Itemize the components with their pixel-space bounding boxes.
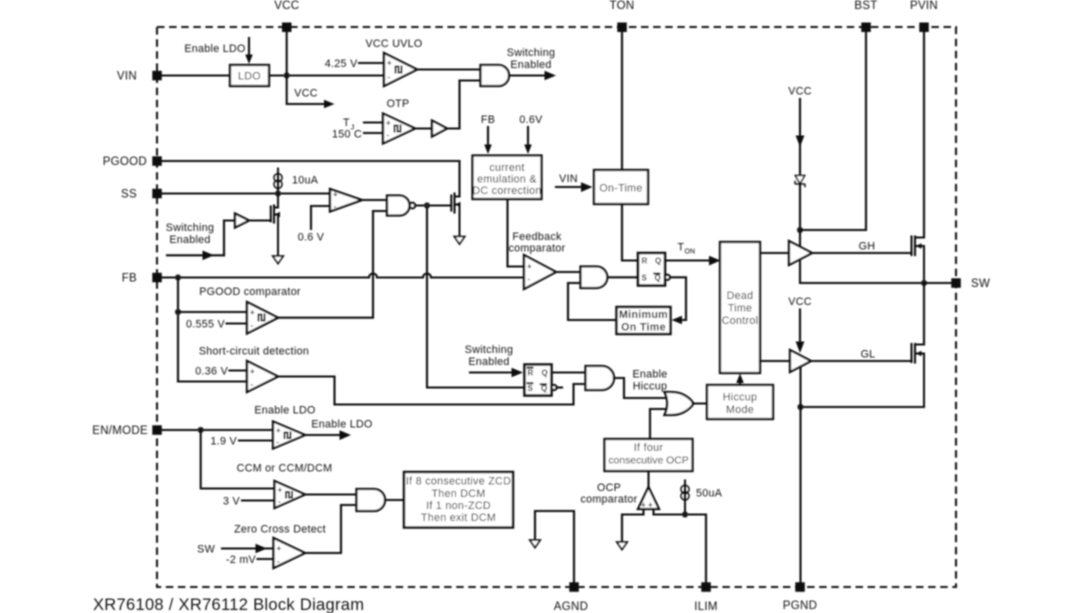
svg-text:FB: FB xyxy=(122,273,137,285)
wire AND output arrow Switching Enabled xyxy=(509,71,556,81)
svg-text:PGOOD: PGOOD xyxy=(103,156,147,168)
block Hiccup Mode xyxy=(707,385,773,419)
svg-text:-2 mV: -2 mV xyxy=(226,554,257,566)
svg-text:Q: Q xyxy=(655,273,661,282)
buffer SS discharge driver xyxy=(235,214,249,228)
wire latch Qbar to minimum on time box xyxy=(670,277,686,324)
gate AND switching-enable xyxy=(481,65,510,86)
svg-text:Dead: Dead xyxy=(727,290,754,302)
wire VIN arrow into On-Time xyxy=(556,182,593,192)
svg-text:3 V: 3 V xyxy=(223,496,241,508)
svg-text:BST: BST xyxy=(854,0,877,12)
wire feedback comparator to min-on AND xyxy=(556,271,581,273)
wire TJ to OTP xyxy=(364,121,383,123)
svg-text:VIN: VIN xyxy=(559,173,578,185)
svg-text:Enable LDO: Enable LDO xyxy=(311,419,372,431)
block Dead Time Control xyxy=(720,242,760,373)
transistor SS discharge NMOS xyxy=(271,194,280,256)
svg-text:150 C: 150 C xyxy=(332,129,362,141)
wire VIN to LDO xyxy=(162,74,231,76)
svg-text:AGND: AGND xyxy=(554,601,588,613)
svg-text:-: - xyxy=(278,497,281,506)
wire Switching Enabled arrow to latch R input xyxy=(470,368,523,378)
svg-text:-: - xyxy=(387,131,390,140)
svg-text:4.25 V: 4.25 V xyxy=(325,58,358,70)
node SW junction xyxy=(921,280,927,286)
wire FB to short-circuit comparator minus input xyxy=(178,380,247,382)
wire FB to PGOOD comparator plus input xyxy=(178,311,247,313)
svg-text:Enable LDO: Enable LDO xyxy=(254,405,315,417)
svg-text:OCP: OCP xyxy=(597,482,621,494)
svg-text:Then exit DCM: Then exit DCM xyxy=(421,512,496,524)
wire VCC arrow into GL driver xyxy=(796,310,805,354)
transistor high-side NMOS xyxy=(912,237,925,284)
svg-text:Switching: Switching xyxy=(465,344,513,356)
svg-text:VIN: VIN xyxy=(117,71,137,83)
wire FB arrow into current emulation box xyxy=(484,127,492,154)
svg-text:1.9 V: 1.9 V xyxy=(211,436,238,448)
label Enable Hiccup xyxy=(632,369,667,393)
wire PVIN pin down to high-side drain xyxy=(923,32,925,238)
label Feedback comparator xyxy=(508,231,565,255)
svg-text:VCC: VCC xyxy=(788,296,811,308)
gate NAND soft-start xyxy=(387,196,415,216)
gate AND DCM detect xyxy=(357,489,386,511)
svg-text:ILIM: ILIM xyxy=(694,601,718,613)
wire buffer to AND lower input xyxy=(447,81,481,129)
svg-text:SW: SW xyxy=(971,278,990,290)
node FB to PGOOD comparator junction xyxy=(175,309,181,315)
svg-text:-: - xyxy=(251,380,254,389)
wire 0.6V to SS comparator xyxy=(311,206,330,229)
svg-text:-: - xyxy=(277,438,280,447)
pin PVIN (top) xyxy=(910,0,938,32)
svg-text:comparator: comparator xyxy=(580,494,637,506)
latch U2 RS (hiccup) xyxy=(525,365,563,396)
wire FB pin to feedback comparator (with hops) xyxy=(162,274,525,278)
svg-text:+: + xyxy=(386,119,391,128)
pin TON (top) xyxy=(610,0,635,32)
svg-text:S: S xyxy=(528,384,534,393)
node ILIM current source junction xyxy=(682,511,688,517)
svg-text:SS: SS xyxy=(121,189,137,201)
block If four consecutive OCP xyxy=(605,439,693,471)
wire PGOOD comparator output up to NAND lower input xyxy=(278,211,387,318)
svg-text:On Time: On Time xyxy=(621,322,666,334)
svg-text:CCM or CCM/DCM: CCM or CCM/DCM xyxy=(237,463,333,475)
svg-text:Mode: Mode xyxy=(726,404,754,416)
svg-text:+: + xyxy=(527,262,532,271)
diode bootstrap (zener) xyxy=(795,176,805,231)
wire OTP comparator to buffer xyxy=(415,127,432,129)
regulator LDO xyxy=(230,65,269,86)
svg-text:Q: Q xyxy=(542,369,548,378)
wire NAND output to PGOOD MOSFET gate xyxy=(415,204,451,206)
transistor PGOOD pulldown NMOS xyxy=(451,194,460,237)
svg-text:Q: Q xyxy=(541,384,547,393)
svg-text:If 8 consecutive ZCD: If 8 consecutive ZCD xyxy=(406,476,511,488)
svg-text:consecutive OCP: consecutive OCP xyxy=(608,456,688,467)
svg-text:DC correction: DC correction xyxy=(472,185,541,197)
pin FB (left) xyxy=(122,273,162,285)
svg-text:On-Time: On-Time xyxy=(599,183,642,195)
node PGND junction xyxy=(797,404,803,410)
label TON signal xyxy=(678,242,696,256)
wire Enable LDO arrow into LDO xyxy=(245,38,253,64)
pin BST (top) xyxy=(854,0,877,32)
svg-text:Hiccup: Hiccup xyxy=(633,381,667,393)
block DCM decision xyxy=(404,472,513,528)
comparator OCP (upward) xyxy=(638,487,659,510)
wire VCC pin drop xyxy=(287,32,327,104)
node FB branch junction xyxy=(175,274,181,280)
svg-text:GL: GL xyxy=(861,349,876,361)
buffer GH driver xyxy=(789,241,812,265)
wire OCP counter to OR lower input xyxy=(650,409,666,439)
pin ILIM (bottom) xyxy=(694,582,718,613)
svg-text:EN/MODE: EN/MODE xyxy=(92,425,148,437)
node EN/MODE branch junction xyxy=(198,427,204,433)
pin EN/MODE (left) xyxy=(92,425,162,437)
wire -2mV to ZCD comparator xyxy=(258,558,274,560)
wire SW node to SW pin xyxy=(924,282,952,284)
svg-text:0.36 V: 0.36 V xyxy=(195,366,228,378)
svg-text:+: + xyxy=(333,190,338,199)
svg-text:-: - xyxy=(528,275,531,284)
buffer GL driver xyxy=(790,350,811,372)
svg-text:+: + xyxy=(276,426,281,435)
wire latch Q output TON arrow to dead time control xyxy=(665,256,721,266)
current source 50uA xyxy=(681,481,723,515)
label TJ xyxy=(343,117,355,132)
svg-text:-: - xyxy=(277,557,280,566)
svg-text:PVIN: PVIN xyxy=(910,0,938,12)
svg-text:Switching: Switching xyxy=(507,47,555,59)
pin VCC (top) xyxy=(274,0,299,32)
wire Hiccup Mode arrow up to dead time control xyxy=(736,374,744,386)
svg-text:Enable LDO: Enable LDO xyxy=(184,43,245,55)
wire AND to latch S input xyxy=(608,276,639,278)
comparator soft-start xyxy=(330,189,362,212)
wire OCP comparator to counter box xyxy=(647,471,649,487)
svg-text:VCC UVLO: VCC UVLO xyxy=(365,38,422,50)
svg-text:FB: FB xyxy=(481,114,495,126)
wire dead time control to GL driver xyxy=(760,360,790,362)
wire AGND pin collector xyxy=(535,511,574,582)
wire SS pin to soft-start comparator xyxy=(162,192,331,194)
svg-text:R: R xyxy=(528,369,534,378)
comparator CCM mode xyxy=(275,481,306,508)
svg-text:Q: Q xyxy=(655,257,661,266)
wire minimum on time loop to AND lower input xyxy=(568,283,617,320)
wire low-side source to PGND node xyxy=(801,406,925,408)
svg-text:0.555 V: 0.555 V xyxy=(186,319,226,331)
svg-text:ON: ON xyxy=(685,249,696,256)
svg-text:Control: Control xyxy=(722,315,759,327)
svg-text:-: - xyxy=(251,321,254,330)
wire SW node down to low-side drain xyxy=(923,283,925,345)
node VCC junction on LDO output xyxy=(284,72,290,78)
node bootstrap junction xyxy=(797,227,803,233)
pin PGOOD (left) xyxy=(103,156,162,168)
wire CCM comparator to DCM AND xyxy=(305,493,357,495)
wire PGND node to PGND pin xyxy=(799,407,801,582)
svg-text:XR76108 / XR76112 Block Diagra: XR76108 / XR76112 Block Diagram xyxy=(93,596,364,613)
wire 0.36V to short-circuit comparator xyxy=(230,369,248,371)
wire 1.9V to comparator xyxy=(239,439,273,441)
wire Switching Enabled arrow to buffer xyxy=(167,221,235,261)
svg-text:TON: TON xyxy=(610,0,635,12)
svg-text:VCC: VCC xyxy=(294,88,317,100)
svg-text:+: + xyxy=(387,59,392,68)
wire EN/MODE branch down to CCM comparator xyxy=(201,430,275,489)
buffer OTP output xyxy=(432,121,447,137)
wire 0.555V to PGOOD comparator xyxy=(227,322,248,324)
svg-text:+: + xyxy=(278,486,283,495)
svg-text:R: R xyxy=(642,257,648,266)
wire dead time control to GH driver xyxy=(760,252,789,254)
wire 0.6V arrow into current emulation box xyxy=(524,127,532,154)
wire short-circuit output to hiccup AND xyxy=(278,377,586,405)
comparator VCC UVLO xyxy=(384,53,417,86)
comparator OTP xyxy=(383,114,415,144)
transistor low-side NMOS xyxy=(912,344,925,407)
pin SW (right) xyxy=(951,278,990,290)
svg-text:LDO: LDO xyxy=(238,71,261,83)
wire UVLO output to AND xyxy=(417,68,481,70)
wire junction to BST pin xyxy=(800,32,866,230)
wire 150C to OTP xyxy=(364,132,383,134)
wire 3V to CCM comparator xyxy=(242,499,275,501)
svg-text:current: current xyxy=(489,162,524,174)
wire GL driver return to PGND node xyxy=(799,367,801,408)
svg-text:PGOOD comparator: PGOOD comparator xyxy=(199,286,301,298)
wire GH driver return to SW node xyxy=(800,260,924,283)
wire On-Time to latch R input xyxy=(622,204,638,261)
label OCP comparator xyxy=(580,482,637,506)
gate AND enable-hiccup xyxy=(586,366,615,390)
svg-text:-: - xyxy=(334,202,337,211)
svg-text:If 1 non-ZCD: If 1 non-ZCD xyxy=(426,500,491,512)
node NAND output junction xyxy=(424,202,430,208)
wire EN/MODE pin to Enable LDO comparator xyxy=(162,429,274,431)
wire FB down-branch xyxy=(177,278,179,382)
wire TON pin into On-Time xyxy=(621,32,623,170)
svg-text:Enabled: Enabled xyxy=(169,234,210,246)
svg-text:+: + xyxy=(250,367,255,376)
svg-text:T: T xyxy=(678,242,685,254)
svg-text:Minimum: Minimum xyxy=(619,309,668,321)
svg-text:OTP: OTP xyxy=(387,98,410,110)
label Switching Enabled (top) xyxy=(507,47,555,71)
wire SS comparator to NAND xyxy=(362,199,387,201)
wire OCP left input to ground xyxy=(622,509,644,542)
ground below SS MOSFET xyxy=(273,256,283,264)
ground OCP reference xyxy=(617,542,627,550)
svg-text:Enabled: Enabled xyxy=(468,356,509,368)
svg-text:+: + xyxy=(648,501,653,510)
wire OCP right input to ILIM pin xyxy=(654,509,707,582)
svg-text:10uA: 10uA xyxy=(292,175,319,187)
wire junction down to GH driver xyxy=(799,230,801,246)
wire VCC arrow down to diode xyxy=(796,99,805,175)
wire Enable LDO output arrow xyxy=(305,430,351,440)
gate OR hiccup xyxy=(665,392,694,415)
block Minimum On Time xyxy=(617,307,671,334)
label Switching Enabled (SS) xyxy=(166,222,214,246)
pin AGND (bottom) xyxy=(554,582,588,613)
node SS junction xyxy=(275,190,281,196)
svg-text:SW: SW xyxy=(197,544,215,556)
wire GH driver to high-side gate xyxy=(812,252,912,254)
comparator short-circuit xyxy=(247,361,278,392)
svg-text:-: - xyxy=(388,73,391,82)
block On-Time xyxy=(594,170,648,204)
svg-text:+: + xyxy=(250,308,255,317)
svg-text:emulation &: emulation & xyxy=(477,174,537,186)
wire SW arrow to ZCD comparator xyxy=(222,544,274,554)
ground below PGOOD MOSFET xyxy=(454,237,464,245)
comparator PGOOD xyxy=(247,302,278,334)
latch U1 RS (PWM) xyxy=(638,253,670,286)
current source 10uA xyxy=(274,169,319,194)
svg-text:VCC: VCC xyxy=(788,86,811,98)
wire GL driver to low-side gate xyxy=(811,360,912,362)
wire AND to ZCD box xyxy=(385,499,404,501)
wire PGOOD pin to pulldown MOSFET drain xyxy=(162,161,460,197)
block current emulation and DC correction xyxy=(472,156,541,200)
svg-text:Then DCM: Then DCM xyxy=(431,488,485,500)
pin PGND (bottom) xyxy=(783,582,817,612)
label VCC branch arrow xyxy=(294,88,334,109)
wire 4.25V to UVLO xyxy=(359,62,384,64)
svg-text:S: S xyxy=(642,273,648,282)
pin SS (left) xyxy=(121,189,162,201)
svg-text:Short-circuit detection: Short-circuit detection xyxy=(199,346,309,358)
wire NAND junction down to hiccup latch S input xyxy=(427,208,524,388)
svg-text:Time: Time xyxy=(728,303,753,315)
label Switching Enabled (hiccup latch) xyxy=(465,344,513,368)
comparator feedback xyxy=(524,255,556,289)
ground AGND arrow xyxy=(530,540,540,548)
svg-text:50uA: 50uA xyxy=(696,488,723,500)
svg-text:Feedback: Feedback xyxy=(512,231,562,243)
IC boundary dashed border xyxy=(157,27,956,587)
wire buffer to discharge MOSFET gate xyxy=(249,219,271,221)
svg-text:Zero Cross Detect: Zero Cross Detect xyxy=(234,524,326,536)
comparator zero-cross xyxy=(274,538,306,568)
svg-text:GH: GH xyxy=(859,241,876,253)
svg-text:Enabled: Enabled xyxy=(510,59,551,71)
svg-text:PGND: PGND xyxy=(783,600,817,612)
gate AND minimum-on-time xyxy=(581,267,608,289)
wire LDO output to UVLO comparator xyxy=(269,74,384,76)
pin VIN (left) xyxy=(117,71,162,83)
wire AND output to OR gate xyxy=(614,378,666,398)
svg-text:Switching: Switching xyxy=(166,222,214,234)
wire latch Q to hiccup AND xyxy=(552,371,586,373)
wire OR output to Hiccup Mode xyxy=(693,402,708,404)
svg-text:VCC: VCC xyxy=(274,0,299,12)
svg-text:T: T xyxy=(343,117,350,129)
wire ZCD output up to DCM AND lower input xyxy=(305,505,357,553)
wire current emulation to feedback comparator plus xyxy=(508,199,525,267)
svg-text:If four: If four xyxy=(634,442,664,454)
svg-text:0.6 V: 0.6 V xyxy=(298,232,325,244)
svg-text:Hiccup: Hiccup xyxy=(723,392,757,404)
svg-text:0.6V: 0.6V xyxy=(519,114,543,126)
svg-text:comparator: comparator xyxy=(508,243,565,255)
svg-text:+: + xyxy=(277,544,282,553)
comparator Enable LDO xyxy=(273,422,305,449)
svg-text:Enable: Enable xyxy=(632,369,667,381)
